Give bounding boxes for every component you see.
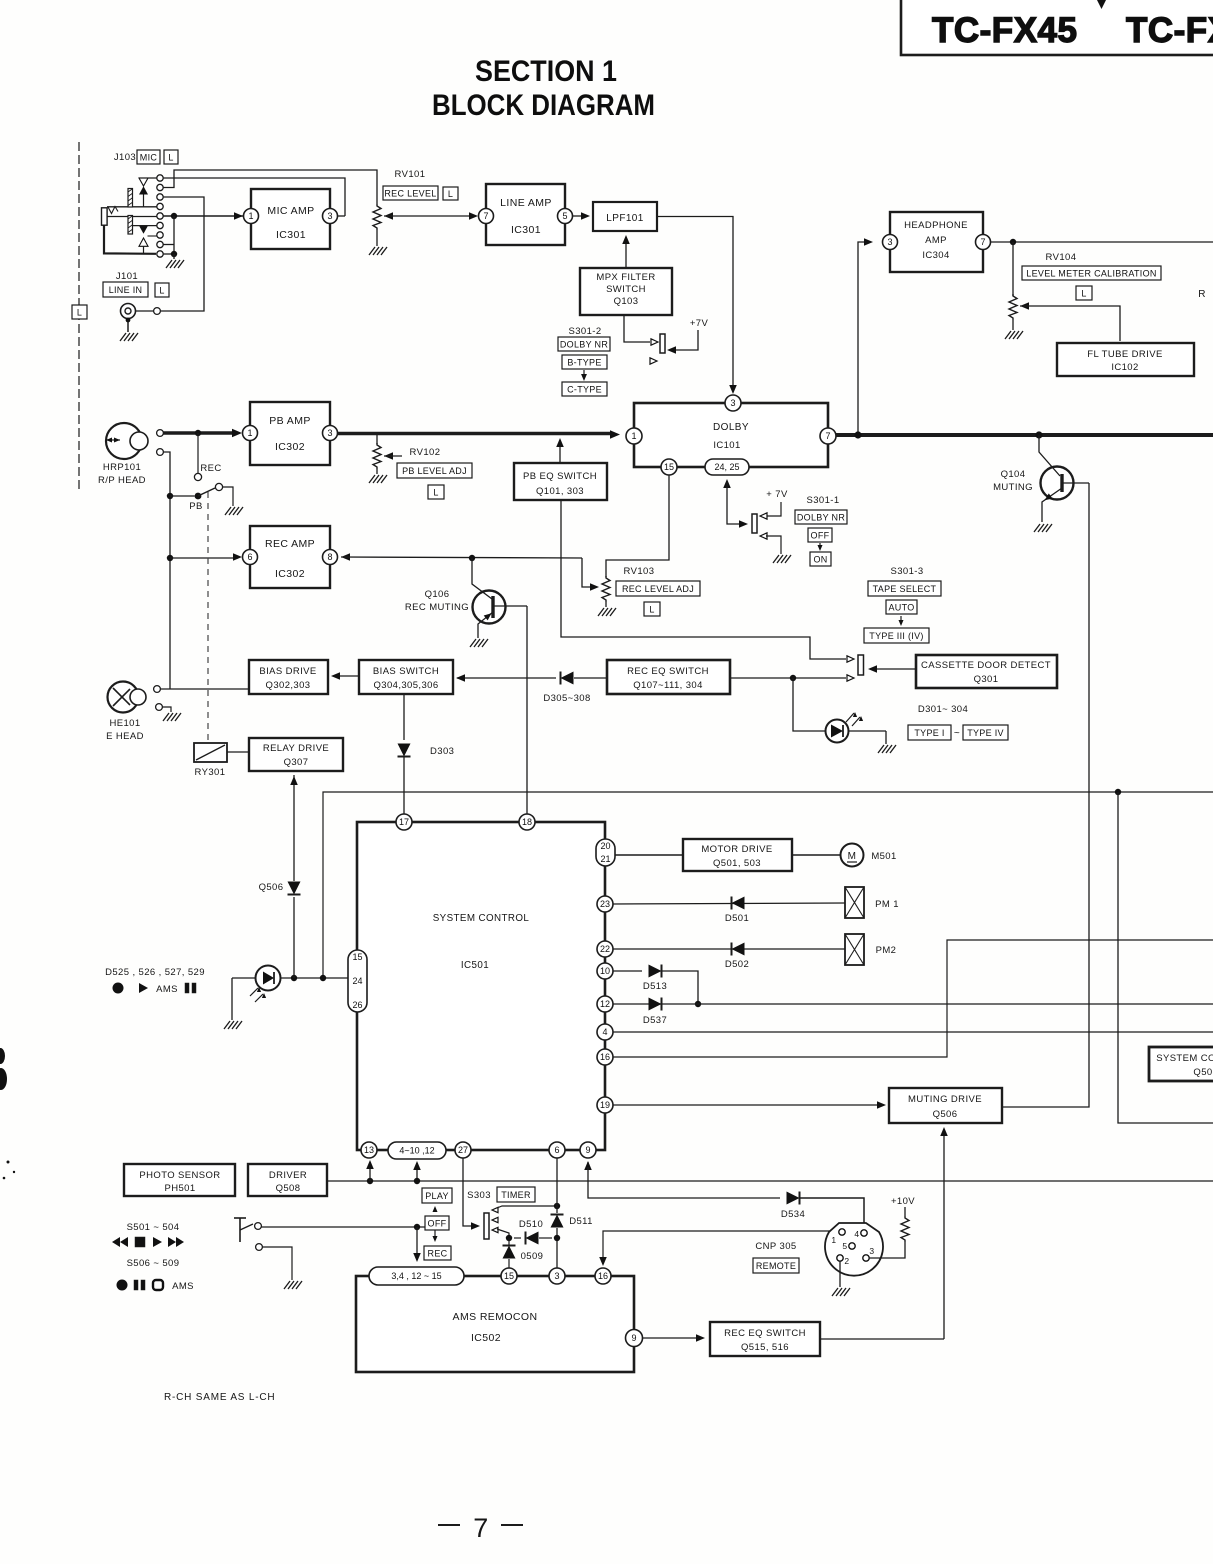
diode D511	[551, 1206, 564, 1268]
L label box (RV104)	[1076, 286, 1092, 300]
plunger PM2	[845, 934, 864, 965]
svg-text:6: 6	[554, 1145, 559, 1155]
svg-text:Q506: Q506	[259, 882, 284, 893]
label +10V	[891, 1196, 915, 1207]
svg-text:E HEAD: E HEAD	[106, 731, 144, 742]
block PHOTO SENSOR PH501	[124, 1164, 235, 1196]
jack contact 1	[157, 175, 163, 181]
svg-text:MIC AMP: MIC AMP	[267, 205, 314, 217]
transistor Q106 REC MUTING	[472, 558, 527, 638]
pins 4~10,12 (SYSTEM CONTROL)	[388, 1142, 446, 1159]
svg-text:HRP101: HRP101	[103, 462, 141, 473]
svg-text:23: 23	[600, 899, 610, 909]
label D301~304	[918, 704, 968, 715]
wire PB contact to ground	[223, 487, 234, 506]
node mic sleeve junction	[171, 251, 177, 257]
node D510 right junction	[554, 1235, 560, 1241]
label D303	[430, 746, 454, 757]
L label box (RV101)	[443, 187, 458, 200]
jack contact 2	[157, 184, 163, 190]
wire D305-308 to REC EQ box	[574, 677, 607, 679]
pin 9 (SYSTEM CONTROL)	[580, 1142, 596, 1158]
svg-text:L: L	[159, 285, 164, 295]
wire pin12 to right edge	[613, 1003, 1213, 1005]
svg-text:18: 18	[522, 817, 532, 827]
svg-text:TYPE III (IV): TYPE III (IV)	[869, 631, 923, 641]
svg-text:+ 7V: + 7V	[766, 489, 788, 500]
node mic hot junction	[171, 213, 177, 219]
wire head bottom contact down	[164, 452, 171, 689]
svg-text:REMOTE: REMOTE	[756, 1261, 796, 1271]
label S506~509	[127, 1258, 180, 1269]
svg-text:REC LEVEL: REC LEVEL	[384, 188, 436, 198]
svg-text:AMP: AMP	[925, 235, 947, 246]
wire leaf switch lower to ground	[263, 1247, 293, 1280]
wire +7V to S301-1	[760, 489, 788, 519]
svg-text:PH501: PH501	[164, 1183, 195, 1194]
wire REC EQ to BIAS SWITCH	[456, 674, 556, 682]
label PM1	[875, 899, 899, 910]
svg-text:S301-2: S301-2	[568, 326, 601, 337]
wire PB EQ to bus	[556, 438, 564, 463]
svg-text:BIAS DRIVE: BIAS DRIVE	[259, 666, 316, 677]
jack body hatched bar upper	[128, 189, 133, 208]
pin 8 (REC AMP)	[323, 550, 338, 565]
R channel marker (clipped)	[1198, 289, 1206, 300]
wire MPX to S301-2 switch	[624, 315, 658, 345]
svg-text:D510: D510	[519, 1219, 543, 1230]
wire pin9 to REC EQ Q515	[643, 1334, 705, 1342]
potentiometer RV102	[373, 435, 381, 474]
pin 3 (DOLBY)	[725, 395, 741, 411]
E head contact top	[154, 686, 161, 693]
svg-text:R/P HEAD: R/P HEAD	[98, 475, 146, 486]
label RV101	[395, 169, 426, 180]
wire pin16 to right edge	[613, 940, 1213, 1057]
svg-text:2: 2	[844, 1256, 849, 1266]
svg-text:DOLBY: DOLBY	[713, 422, 749, 433]
switch cassette door bar	[858, 655, 864, 675]
block RELAY DRIVE Q307	[249, 738, 343, 771]
jack contact 5	[157, 213, 163, 219]
wire head to PB AMP pin1 (thick)	[164, 429, 243, 437]
svg-text:R-CH SAME AS L-CH: R-CH SAME AS L-CH	[164, 1392, 275, 1403]
svg-text:3: 3	[887, 237, 892, 247]
svg-text:16: 16	[598, 1271, 608, 1281]
svg-text:D537: D537	[643, 1015, 667, 1026]
node bus-Q104 junction	[1035, 431, 1042, 438]
svg-text:15: 15	[504, 1271, 514, 1281]
svg-text:IC502: IC502	[471, 1332, 501, 1344]
svg-text:HE101: HE101	[109, 718, 140, 729]
erase head HE101	[108, 682, 147, 713]
block REC EQ SWITCH Q107-111 304	[607, 660, 730, 694]
wire MPX to LPF101	[622, 235, 630, 268]
svg-text:S501 ~ 504: S501 ~ 504	[127, 1222, 180, 1233]
node driver junction	[367, 1178, 373, 1184]
svg-text:OFF: OFF	[811, 530, 830, 540]
wire Q106 to pin18	[526, 606, 528, 816]
TYPE III (IV) label box	[864, 628, 929, 643]
svg-text:5: 5	[562, 211, 567, 221]
block CASSETTE DOOR DETECT Q301	[916, 655, 1057, 688]
wire HEADPHONE out to right edge	[991, 241, 1213, 243]
wire head to REC AMP pin6	[170, 553, 242, 561]
pin 7 (HEADPHONE AMP)	[976, 235, 991, 250]
svg-text:L: L	[433, 487, 438, 497]
S303 throw bottom	[492, 1227, 509, 1238]
connector CNP305 REMOTE	[825, 1223, 883, 1276]
svg-text:REC: REC	[200, 463, 221, 474]
pin 3 (MIC AMP)	[323, 209, 338, 224]
label D509	[521, 1251, 544, 1262]
arrow OFF to ON	[817, 543, 822, 551]
svg-text:PLAY: PLAY	[425, 1191, 449, 1201]
svg-text:Q515, 516: Q515, 516	[741, 1342, 789, 1353]
pin 1 (DOLBY)	[626, 428, 642, 444]
scan mark left edge 2	[0, 1068, 7, 1090]
label D537	[643, 1015, 667, 1026]
arrow OFF to PLAY	[432, 1206, 437, 1212]
ON label box	[810, 552, 831, 566]
note R-CH SAME AS L-CH	[164, 1392, 275, 1403]
block DRIVER Q508	[248, 1164, 327, 1196]
svg-text:R: R	[1198, 289, 1206, 300]
svg-text:S303: S303	[467, 1190, 491, 1201]
scan mark left edge 1	[0, 1048, 5, 1064]
motor M501	[792, 844, 864, 867]
svg-text:D303: D303	[430, 746, 454, 757]
svg-text:PB LEVEL ADJ: PB LEVEL ADJ	[402, 466, 467, 476]
pin 13 (SYSTEM CONTROL)	[361, 1142, 377, 1158]
svg-text:1: 1	[247, 428, 252, 438]
svg-text:7: 7	[473, 1513, 488, 1543]
AUTO label box	[886, 600, 917, 614]
svg-text:M: M	[848, 851, 857, 862]
pin 3 (PB AMP)	[323, 426, 338, 441]
wire cassette door detect to switch	[868, 665, 916, 673]
svg-text:AMS: AMS	[172, 1281, 194, 1292]
svg-text:6: 6	[247, 552, 252, 562]
label REC	[200, 463, 221, 474]
label Q106 REC MUTING	[405, 589, 469, 613]
wire CNP pin2 to ground	[839, 1261, 841, 1287]
svg-text:4~10 ,12: 4~10 ,12	[399, 1146, 434, 1156]
heading BLOCK DIAGRAM	[432, 89, 655, 122]
label PM2	[876, 945, 897, 956]
OFF label box	[808, 528, 832, 542]
diode Q506	[288, 775, 301, 978]
svg-text:SECTION 1: SECTION 1	[475, 55, 617, 88]
block PB AMP IC302	[250, 402, 330, 465]
wire RV102 wiper	[384, 452, 402, 460]
jack contact 8	[157, 241, 163, 247]
pin 7 (DOLBY)	[820, 428, 836, 444]
svg-text:12: 12	[600, 999, 610, 1009]
block SYSTEM CONTROL IC501	[357, 822, 605, 1150]
svg-text:D501: D501	[725, 913, 749, 924]
wire REC EQ Q515 to muting vertical	[820, 1338, 944, 1340]
pin 6 (REC AMP)	[243, 550, 258, 565]
svg-text:BLOCK DIAGRAM: BLOCK DIAGRAM	[432, 89, 655, 122]
svg-text:3,4 , 12 ~ 15: 3,4 , 12 ~ 15	[391, 1271, 441, 1281]
wire REC AMP pin8 input	[341, 553, 582, 561]
svg-text:PB EQ SWITCH: PB EQ SWITCH	[523, 471, 597, 482]
pin 27 (SYSTEM CONTROL)	[455, 1142, 471, 1158]
svg-text:Q104: Q104	[1001, 469, 1026, 480]
MIC label box	[137, 150, 160, 164]
mic plug sleeve loop	[104, 225, 156, 254]
pin 19 (SYSTEM CONTROL)	[597, 1097, 613, 1113]
block HEADPHONE AMP IC304	[890, 212, 983, 272]
transport icons (photo)	[113, 983, 197, 996]
label S301-3	[890, 566, 923, 577]
svg-text:Q508: Q508	[276, 1183, 301, 1194]
label J103	[114, 152, 136, 163]
svg-text:L: L	[168, 152, 173, 162]
jack switch triangles lower	[133, 226, 157, 254]
wire control line to right edge	[323, 792, 1213, 978]
wire BIAS SWITCH to BIAS DRIVE	[331, 672, 359, 680]
svg-text:19: 19	[600, 1100, 610, 1110]
pin 9 (AMS REMOCON)	[626, 1330, 643, 1347]
svg-text:L: L	[448, 189, 453, 199]
svg-text:MUTING DRIVE: MUTING DRIVE	[908, 1094, 982, 1105]
jack body hatched bar lower	[128, 216, 133, 235]
page number 7	[438, 1513, 523, 1543]
svg-text:MOTOR DRIVE: MOTOR DRIVE	[701, 844, 772, 855]
svg-text:24, 25: 24, 25	[714, 462, 739, 472]
diode D509	[503, 1238, 516, 1268]
svg-text:DOLBY NR: DOLBY NR	[797, 512, 845, 522]
transport icons S506	[117, 1280, 194, 1293]
block MPX FILTER SWITCH Q103	[580, 268, 672, 315]
switch S301-1 bar	[752, 514, 757, 533]
wire pins20,21 to MOTOR DRIVE	[615, 854, 683, 856]
L channel label box	[72, 305, 87, 319]
node photo junction 2	[320, 975, 326, 981]
ground (RV102)	[369, 475, 387, 483]
wire LED to ground	[849, 731, 887, 744]
L label box (mic)	[164, 150, 178, 164]
svg-text:D525 , 526 , 527, 529: D525 , 526 , 527, 529	[105, 967, 205, 978]
svg-text:DRIVER: DRIVER	[269, 1170, 307, 1181]
REC LEVEL label box	[383, 186, 438, 200]
B-TYPE label box	[562, 355, 607, 369]
block REC AMP IC302	[250, 526, 330, 588]
pin 23 (SYSTEM CONTROL)	[597, 896, 613, 912]
S301-1 lower throw to ground	[760, 533, 781, 554]
pins 15,24,26 (SYSTEM CONTROL)	[348, 950, 367, 1012]
model name TC-FX45	[932, 11, 1077, 50]
svg-text:27: 27	[458, 1145, 468, 1155]
diode D510	[514, 1232, 552, 1245]
label Q506	[259, 882, 284, 893]
node D513/D537 junction	[695, 1001, 701, 1007]
wire to pin13	[366, 1160, 374, 1181]
block MOTOR DRIVE Q501 503	[683, 839, 792, 871]
svg-text:IC302: IC302	[275, 568, 305, 580]
svg-text:~: ~	[954, 728, 960, 739]
label HE101 E HEAD	[106, 718, 144, 742]
wire pill to 3,4 pill	[413, 1227, 421, 1262]
label S303	[467, 1190, 491, 1201]
wire pin10 branch	[613, 970, 642, 972]
svg-text:17: 17	[399, 817, 409, 827]
wire REC EQ out to cassette switch	[730, 675, 854, 681]
svg-text:LINE AMP: LINE AMP	[500, 197, 552, 209]
label RY301	[195, 767, 226, 778]
svg-text:D301~ 304: D301~ 304	[918, 704, 968, 715]
OFF label box	[425, 1216, 449, 1230]
R/P head HRP101	[106, 423, 148, 459]
label M501	[871, 851, 896, 862]
label J101	[116, 271, 138, 282]
block FL TUBE DRIVE IC102	[1057, 343, 1194, 376]
pin 15 (DOLBY)	[661, 459, 677, 475]
node LED branch	[790, 675, 796, 681]
label D525,526,527,529	[105, 967, 205, 978]
svg-text:Q106: Q106	[425, 589, 450, 600]
ground (line in)	[120, 318, 138, 341]
svg-text:RV103: RV103	[624, 566, 655, 577]
svg-text:RV102: RV102	[410, 447, 441, 458]
svg-text:MPX FILTER: MPX FILTER	[596, 272, 655, 283]
ground (S301-1)	[773, 555, 791, 563]
ground (E head)	[163, 713, 181, 721]
pins 20,21 (SYSTEM CONTROL)	[596, 839, 615, 866]
label Q104 MUTING	[993, 469, 1033, 493]
svg-text:IC304: IC304	[922, 250, 949, 261]
svg-text:J103: J103	[114, 152, 136, 163]
wire pin27 to S303	[463, 1158, 480, 1230]
block SYSTEM CONTROL Q50x (clipped)	[1149, 1047, 1213, 1081]
pin 10 (SYSTEM CONTROL)	[597, 963, 613, 979]
wire CNP pin1 to AMS pin16	[599, 1231, 838, 1266]
wire mic sleeve vertical	[163, 216, 174, 254]
label PB	[189, 501, 202, 512]
svg-text:5: 5	[842, 1241, 847, 1251]
pin 7 (LINE AMP)	[479, 209, 494, 224]
wire DOLBY 24,25 to S301-1	[723, 479, 748, 528]
svg-text:CNP 305: CNP 305	[755, 1241, 796, 1252]
svg-text:RV101: RV101	[395, 169, 426, 180]
L label box (RV102)	[428, 485, 444, 499]
svg-text:FL TUBE DRIVE: FL TUBE DRIVE	[1087, 349, 1162, 360]
jack contact 9	[157, 251, 163, 257]
svg-text:1: 1	[831, 1235, 836, 1245]
svg-text:D502: D502	[725, 959, 749, 970]
svg-text:24: 24	[352, 976, 362, 986]
svg-text:TYPE IV: TYPE IV	[967, 728, 1004, 738]
potentiometer RV101	[373, 204, 381, 246]
REC LEVEL ADJ label box	[616, 581, 700, 596]
svg-text:ON: ON	[813, 554, 827, 564]
svg-text:Q506: Q506	[933, 1109, 958, 1120]
label HRP101 R/P HEAD	[98, 462, 146, 486]
ground (type LED)	[878, 745, 896, 753]
svg-text:TC-FX: TC-FX	[1126, 11, 1213, 50]
svg-text:TIMER: TIMER	[501, 1190, 531, 1200]
model name TC-FX (clipped)	[1126, 11, 1213, 50]
S303 throw mid	[492, 1217, 498, 1222]
small arrow mark in title box	[1097, 0, 1106, 9]
arrow B-TYPE to C-TYPE	[581, 370, 587, 381]
TAPE SELECT label box	[868, 581, 941, 596]
potentiometer RV103	[602, 576, 610, 607]
diode D501	[732, 897, 745, 910]
wire D534 to CNP pin4	[800, 1198, 865, 1228]
svg-text:PM 1: PM 1	[875, 899, 899, 910]
svg-text:4: 4	[854, 1229, 859, 1239]
jack switch triangles upper	[139, 178, 157, 207]
svg-text:OFF: OFF	[428, 1218, 447, 1228]
wire RY301 to RELAY DRIVE	[227, 751, 249, 753]
wire E head lower to ground	[163, 707, 172, 712]
PB contact circle	[215, 483, 222, 490]
C-TYPE label box	[562, 382, 607, 396]
svg-text:S506 ~ 509: S506 ~ 509	[127, 1258, 180, 1269]
svg-text:IC101: IC101	[713, 440, 740, 451]
wire MUTING DRIVE bottom to REC EQ Q515	[940, 1127, 948, 1339]
svg-text:PHOTO SENSOR: PHOTO SENSOR	[139, 1170, 220, 1181]
svg-text:M501: M501	[871, 851, 896, 862]
svg-text:RELAY DRIVE: RELAY DRIVE	[263, 743, 329, 754]
label D513	[643, 981, 667, 992]
pin 18 (SYSTEM CONTROL)	[519, 814, 535, 830]
svg-text:+10V: +10V	[891, 1196, 915, 1207]
LED D301~304 indicator	[826, 712, 864, 743]
label D534	[781, 1209, 805, 1220]
pins 24,25 (DOLBY)	[705, 459, 749, 475]
node control line junction	[1115, 789, 1121, 795]
svg-text:L: L	[1081, 288, 1086, 298]
svg-text:0509: 0509	[521, 1251, 544, 1262]
svg-text:26: 26	[352, 1000, 362, 1010]
tilde between type boxes	[954, 728, 960, 739]
wire pin23 to PM1	[613, 903, 845, 904]
label S501~504	[127, 1222, 180, 1233]
wire PB EQ bottom to cassette switch	[561, 500, 854, 662]
svg-text:D534: D534	[781, 1209, 805, 1220]
diode D513	[649, 965, 662, 978]
wire mic hot to MIC AMP pin 1	[163, 212, 243, 220]
block BIAS DRIVE Q302 303	[249, 660, 328, 694]
svg-text:3: 3	[554, 1271, 559, 1281]
ground (Q104)	[1034, 524, 1052, 532]
L-channel dashed boundary line	[78, 142, 80, 493]
mechanical link dashed	[207, 492, 209, 742]
svg-text:HEADPHONE: HEADPHONE	[904, 220, 968, 231]
node photo junction 1	[291, 975, 297, 981]
svg-text:MUTING: MUTING	[993, 482, 1033, 493]
L label box (line in)	[155, 283, 169, 297]
node Q106 base junction	[469, 555, 475, 561]
svg-text:TC-FX45: TC-FX45	[932, 11, 1077, 50]
svg-text:DOLBY NR: DOLBY NR	[560, 339, 608, 349]
leaf switch S501-509	[234, 1218, 262, 1250]
ground (RV101)	[369, 247, 387, 255]
wire leaf switch to OFF line	[262, 1226, 426, 1228]
label D510	[519, 1219, 543, 1230]
svg-text:22: 22	[600, 944, 610, 954]
label S301-1	[806, 495, 839, 506]
pin 22 (SYSTEM CONTROL)	[597, 941, 613, 957]
wire contact1 to MIC AMP pin3 loop	[163, 178, 345, 216]
svg-text:REC: REC	[428, 1248, 448, 1258]
LEVEL METER CALIBRATION label box	[1022, 266, 1161, 280]
transport icons S501	[112, 1237, 184, 1247]
